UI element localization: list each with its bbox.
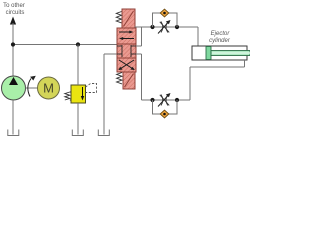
wire pump to tank [12, 100, 14, 135]
wire pump riser [12, 23, 14, 77]
wire top flow line [135, 26, 199, 28]
cylinder rod [211, 51, 250, 56]
tank T3 [98, 130, 109, 136]
tank T2 [72, 130, 83, 136]
svg-text:cylinder: cylinder [209, 38, 231, 44]
wire valve port A [136, 45, 142, 47]
wire relief to tank [77, 103, 79, 135]
wire bottom flow line [142, 99, 191, 101]
valve U1 solenoid top [122, 9, 135, 28]
check valve CV1 bypass [153, 13, 178, 27]
valve U1 main body [117, 28, 136, 72]
valve U1 solenoid bottom [123, 72, 135, 89]
relief valve arrow [82, 87, 84, 97]
valve centre blocked ports [117, 45, 122, 47]
check valve CV1 [160, 9, 169, 17]
node relief junction [76, 42, 80, 46]
node pump junction [11, 42, 15, 46]
flow control FC1 [161, 22, 163, 33]
node FC2 left [150, 98, 154, 102]
motor M1 [38, 77, 60, 99]
svg-text:circuits: circuits [6, 10, 25, 16]
valve position 1 arrows [119, 31, 130, 33]
check valve CV2 [160, 110, 169, 118]
svg-text:M: M [43, 81, 54, 96]
relief valve pilot line [86, 84, 97, 93]
rotation arrow [28, 79, 31, 97]
cylinder piston [206, 47, 211, 60]
wire valve port B [136, 53, 142, 55]
svg-text:To other: To other [3, 3, 25, 9]
wire valve tank return [104, 53, 117, 55]
cylinder C1 body [192, 46, 247, 60]
valve spring bottom [117, 73, 122, 84]
node FC1 right [175, 25, 179, 29]
wire bus to relief [77, 45, 79, 86]
pump P1 [2, 76, 26, 100]
relief valve spring [65, 92, 71, 100]
wire main bus [13, 44, 117, 46]
relief valve V1 body [71, 85, 86, 103]
wire rod end connection [189, 67, 191, 100]
tank T1 [8, 130, 19, 136]
flow control FC2 [161, 95, 163, 106]
node FC1 left [150, 25, 154, 29]
svg-text:Ejector: Ejector [211, 31, 231, 37]
valve position 3 crossed arrows [119, 60, 134, 70]
shaft wire [26, 87, 38, 89]
wire to cylinder cap end [197, 27, 199, 46]
valve spring top [116, 12, 121, 23]
arrow to other circuits [10, 17, 16, 25]
check valve CV2 bypass [153, 100, 178, 114]
node FC2 right [175, 98, 179, 102]
